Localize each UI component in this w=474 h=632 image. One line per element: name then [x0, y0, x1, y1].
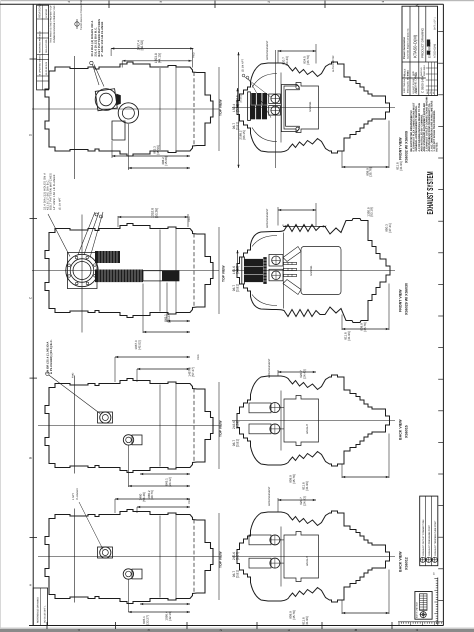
svg-text:[3.81]: [3.81] [236, 122, 240, 130]
svg-text:1: 1 [287, 629, 291, 631]
svg-text:[42.02]: [42.02] [137, 340, 141, 349]
front view 1 exhaust ports [269, 94, 281, 115]
svg-text:[9.67]: [9.67] [236, 552, 240, 560]
svg-text:EXHAUST OUTLET CONNECTION: EXHAUST OUTLET CONNECTION [422, 519, 425, 555]
front view 1 dims top [266, 40, 335, 72]
back view 3 ports with stubs [249, 403, 280, 434]
back view 3 dims top [268, 358, 316, 379]
svg-text:EXHAUST TEMPERATURE PORT: EXHAUST TEMPERATURE PORT [434, 520, 437, 555]
svg-text:TOP VIEW: TOP VIEW [219, 420, 223, 437]
svg-text:TOP VIEW: TOP VIEW [222, 265, 226, 282]
front view 1 port centerline extension [275, 50, 277, 168]
svg-text:FWD: FWD [193, 52, 196, 58]
svg-text:KTA50-D(M): KTA50-D(M) [413, 34, 418, 58]
svg-text:AND [INCHES] FROM CRANKSHAFT C: AND [INCHES] FROM CRANKSHAFT C/L. [428, 102, 431, 151]
svg-text:[53.19]: [53.19] [370, 207, 374, 216]
svg-text:[37.41]: [37.41] [388, 223, 392, 232]
svg-text:A7550-D(M): A7550-D(M) [434, 44, 437, 58]
svg-text:ARRANGEMENT: ARRANGEMENT [266, 208, 269, 228]
zone ticks right border ruler [438, 32, 443, 601]
svg-text:[5.92]: [5.92] [236, 104, 240, 112]
svg-text:[44.15]: [44.15] [157, 53, 161, 63]
svg-text:XS6032 W/ XS6009: XS6032 W/ XS6009 [405, 131, 409, 163]
svg-text:& PLUGGED) [20.6] B.C.: & PLUGGED) [20.6] B.C. [50, 339, 53, 374]
back view 4 dims bottom [289, 570, 389, 626]
svg-text:FRONT VIEW: FRONT VIEW [399, 289, 403, 312]
svg-text:(2) 1/4 NPT: (2) 1/4 NPT [59, 197, 62, 210]
top view 1 leader lines [90, 61, 104, 86]
front view 2 sensor rods [283, 247, 301, 295]
front view 1 port note [242, 59, 272, 118]
back view 4 interior lines [280, 527, 284, 587]
top view 3 leader and note [46, 339, 100, 413]
svg-text:EXHAUST PRESSURE PORT: EXHAUST PRESSURE PORT [428, 524, 431, 555]
svg-text:REFERENCE DRAWING: REFERENCE DRAWING [37, 597, 40, 623]
front view 2 exhaust ports [269, 255, 283, 281]
front view 1 exhaust manifold black sections [248, 92, 268, 121]
svg-text:AND INSTALLED BY CUMMINS.: AND INSTALLED BY CUMMINS. [420, 114, 423, 152]
back view 4 centerline [232, 556, 395, 558]
svg-text:WEIGHT: WEIGHT [306, 424, 309, 434]
top view 4 dims right [219, 513, 240, 600]
svg-text:4: 4 [67, 1, 71, 3]
page bottom edge shadow [0, 629, 474, 632]
svg-text:08-14-97 GPL: 08-14-97 GPL [45, 38, 48, 53]
front view 1 centerline [232, 107, 395, 109]
front view 1 dims bottom [342, 121, 403, 177]
svg-text:[31.96]: [31.96] [347, 331, 351, 340]
front view 1 interior pipes [252, 73, 281, 143]
back view 4 silhouette [237, 511, 390, 602]
revision table strip [37, 3, 49, 89]
svg-text:[3.81]: [3.81] [236, 439, 240, 447]
zone ticks bottom border [47, 622, 419, 631]
top view 1 elbow black segment [117, 94, 121, 105]
top view 2 dims below [134, 283, 190, 350]
svg-text:2: 2 [267, 1, 271, 3]
svg-text:[35.78]: [35.78] [292, 610, 296, 619]
top view 3 body outline [45, 379, 213, 473]
svg-text:11-02-98 RJS: 11-02-98 RJS [45, 61, 48, 75]
top view 3 dims right [219, 382, 240, 469]
svg-text:[35.56]: [35.56] [156, 145, 160, 154]
top view 1 outlet flange 2 [112, 103, 139, 140]
svg-text:[3.81]: [3.81] [236, 284, 240, 292]
svg-text:XS6029 W/ XS6030: XS6029 W/ XS6030 [405, 283, 409, 315]
svg-text:ARE STANDARD EQUIPMENT SUPPLIE: ARE STANDARD EQUIPMENT SUPPLIED [423, 103, 426, 152]
front view 1 silhouette [237, 62, 390, 153]
svg-text:REDRAWN PER ECO: REDRAWN PER ECO [39, 31, 42, 53]
svg-text:0500-3454: 0500-3454 [423, 65, 426, 76]
svg-text:BAR IS ONE INCH: BAR IS ONE INCH [415, 601, 418, 618]
svg-text:2: 2 [219, 629, 223, 631]
svg-text:1. DO NOT SCALE THIS DRAWING.: 1. DO NOT SCALE THIS DRAWING. [433, 110, 436, 152]
svg-text:THIS PRINT IS THE PROPERTY OF: THIS PRINT IS THE PROPERTY OF [50, 5, 53, 43]
front view 2 label [399, 283, 409, 315]
front view 2 dims bottom [342, 284, 389, 341]
svg-text:5. EXHAUST FLEX CONNECTIONS MU: 5. EXHAUST FLEX CONNECTIONS MUST [413, 102, 416, 151]
svg-text:SO-90125 SHT 1: SO-90125 SHT 1 [43, 605, 46, 623]
svg-text:[3.81]: [3.81] [236, 570, 240, 578]
svg-text:[24.12]: [24.12] [168, 477, 172, 486]
svg-text:SO#2341: SO#2341 [309, 101, 312, 112]
svg-text:[15.68]: [15.68] [164, 156, 168, 165]
scale reference box with centermark [415, 592, 432, 620]
page top edge shadow [0, 0, 474, 1]
back view 3 label [399, 419, 409, 440]
svg-text:A1: A1 [414, 72, 418, 76]
svg-text:[24.43]: [24.43] [303, 496, 307, 505]
svg-text:[33.27]: [33.27] [145, 615, 149, 624]
top view 2 centerlines [32, 270, 219, 272]
svg-text:FWD: FWD [188, 216, 191, 222]
back view 4 label [399, 551, 409, 572]
top view 1 body outline [45, 62, 213, 156]
top view 1 dimensions above [111, 40, 239, 108]
top view 1 label [219, 99, 223, 116]
svg-text:FWD: FWD [197, 354, 200, 360]
back view 3 dims bottom [289, 434, 389, 491]
svg-text:DO NOT SCALE: DO NOT SCALE [412, 78, 415, 94]
svg-text:(2) 1/4 NPT: (2) 1/4 NPT [242, 59, 245, 72]
svg-text:[36.79]: [36.79] [306, 55, 310, 64]
top view 1 dims right [219, 67, 240, 151]
front view 2 exhaust manifold block [242, 257, 267, 284]
zone ticks top border [67, 1, 385, 9]
svg-text:CUMMINS ENGINE COMPANY, INC.: CUMMINS ENGINE COMPANY, INC. [53, 5, 56, 43]
back view 3 centerline [232, 420, 395, 422]
svg-text:ALTERNATOR: ALTERNATOR [332, 55, 335, 72]
svg-text:1: 1 [381, 1, 385, 3]
front view 2 silhouette [237, 219, 390, 323]
svg-text:DWG NO: DWG NO [420, 67, 423, 76]
top view 2 dims above [118, 208, 191, 227]
svg-text:[33.27]: [33.27] [167, 313, 171, 322]
general notes [410, 96, 439, 151]
svg-text:[24.43]: [24.43] [285, 56, 289, 65]
svg-text:[53.26]: [53.26] [154, 208, 158, 218]
svg-text:3. EXHAUST OUTLET CONNECTIONS: 3. EXHAUST OUTLET CONNECTIONS SHOWN [425, 96, 428, 151]
back view 4 ports with stubs [249, 535, 280, 568]
front view 1 left dim labels [235, 95, 242, 102]
drafting symbols [75, 0, 83, 30]
svg-text:1 NPT: 1 NPT [72, 493, 75, 500]
front view 2 dims top [266, 203, 392, 233]
top view 3 pressure port boss [98, 412, 113, 423]
top view 4 pressure port boss [98, 547, 113, 558]
front view 2 interior pipes [252, 233, 283, 309]
svg-text:FWD: FWD [188, 498, 191, 504]
top view 3 temperature port [123, 435, 142, 445]
corner ruler vertical [433, 572, 438, 626]
svg-text:B: B [29, 457, 33, 459]
top view 3 centerlines [38, 425, 219, 427]
svg-text:FRONT VIEW: FRONT VIEW [399, 137, 403, 160]
zone ticks left border [29, 59, 38, 586]
svg-text:[6.56]: [6.56] [238, 95, 242, 102]
svg-text:3: 3 [147, 629, 151, 631]
svg-text:WEIGHT: WEIGHT [306, 556, 309, 566]
front view 1 flex clamp bracket [281, 85, 299, 132]
top view 4 centerlines [38, 556, 219, 558]
back view 3 interior lines [280, 391, 284, 451]
svg-text:PRODUCT DRAWING: PRODUCT DRAWING [420, 27, 424, 58]
svg-text:C 0500-3454: C 0500-3454 [420, 75, 424, 93]
svg-text:[56.59]: [56.59] [140, 40, 144, 50]
svg-text:BACK VIEW: BACK VIEW [399, 551, 403, 572]
svg-text:[35.78]: [35.78] [369, 167, 373, 176]
svg-text:BE SUPPORTED INDEPENDENTLY.: BE SUPPORTED INDEPENDENTLY. [410, 109, 413, 151]
back view 4 dims top [268, 486, 316, 511]
top view 2 flex pipe lower [95, 270, 179, 283]
svg-text:A: A [414, 4, 419, 7]
svg-text:XS6012: XS6012 [405, 557, 409, 570]
corner ruler horizontal [398, 622, 443, 625]
revision strip side notes [50, 5, 57, 43]
svg-text:[35.78]: [35.78] [292, 474, 296, 483]
svg-text:SO#2341: SO#2341 [310, 265, 313, 276]
svg-text:[6.36]: [6.36] [236, 266, 240, 274]
svg-text:XS6015: XS6015 [405, 425, 409, 438]
top view 1 exhaust elbow flange [95, 89, 117, 111]
top view 3 dims above [115, 354, 200, 382]
top view 1 centerlines [32, 108, 219, 110]
svg-text:GENERAL ARRANGEMENT DRAWING.: GENERAL ARRANGEMENT DRAWING. [415, 105, 418, 151]
svg-text:PRINT: PRINT [415, 87, 418, 94]
svg-text:[86.15]: [86.15] [242, 130, 246, 139]
svg-text:Cummins Engine Company, Inc.: Cummins Engine Company, Inc. [406, 27, 409, 59]
top view 2 body outline [45, 224, 213, 318]
svg-text:SHT 1 OF 1: SHT 1 OF 1 [434, 17, 437, 30]
svg-text:[24.43]: [24.43] [303, 369, 307, 378]
svg-text:[31.96]: [31.96] [305, 481, 309, 490]
svg-text:[31.96]: [31.96] [305, 616, 309, 625]
svg-text:THIRD ANGLE PROJECTION: THIRD ANGLE PROJECTION [80, 0, 83, 30]
svg-text:BACK VIEW: BACK VIEW [399, 419, 403, 440]
exhaust port legend table [420, 496, 438, 566]
svg-text:[42.16]: [42.16] [168, 611, 172, 620]
svg-text:2. ALL DIMENSIONS ARE IN MILLI: 2. ALL DIMENSIONS ARE IN MILLIMETERS [431, 100, 434, 151]
page left edge shadow [0, 0, 1, 632]
svg-text:4: 4 [77, 629, 81, 631]
svg-text:4. FOR ENGINE DETAILS REFER TO: 4. FOR ENGINE DETAILS REFER TO THE [418, 103, 421, 152]
top view 2 dims right [219, 227, 240, 314]
svg-text:SCALE: SCALE [404, 68, 407, 76]
svg-text:A 34162: A 34162 [45, 8, 48, 17]
svg-text:14" ANSI 150 LB FLANGE: 14" ANSI 150 LB FLANGE [53, 174, 56, 210]
top view 4 dims below [128, 580, 190, 625]
svg-text:FWD: FWD [72, 372, 75, 378]
top view 4 temperature port [123, 569, 142, 579]
top view 4 note [72, 488, 103, 550]
front view 2 upper dim [283, 225, 326, 228]
top view 4 body outline [45, 510, 213, 604]
svg-text:B UPDATED VIEWS: B UPDATED VIEWS [39, 55, 42, 76]
top view 2 turbo outlet flange [66, 253, 98, 289]
top view 1 dims below [112, 124, 190, 170]
svg-text:REVISIONS: REVISIONS [39, 3, 42, 17]
svg-text:ARRANGEMENT: ARRANGEMENT [266, 40, 269, 60]
front view 2 centerline [232, 270, 395, 272]
title block [402, 6, 438, 95]
svg-text:PLUGGED: PLUGGED [76, 488, 79, 500]
svg-text:[54.48]: [54.48] [142, 492, 146, 501]
svg-text:TOP VIEW: TOP VIEW [219, 551, 223, 568]
top view 2 flex pipe upper [95, 251, 120, 263]
svg-text:[40.76]: [40.76] [150, 490, 154, 499]
svg-text:B: B [354, 629, 358, 631]
svg-text:TOP VIEW: TOP VIEW [219, 99, 223, 116]
svg-text:[57.37]: [57.37] [191, 367, 195, 376]
svg-text:ARRANGEMENT: ARRANGEMENT [268, 358, 271, 378]
front view 1 label [399, 131, 409, 163]
top view 4 dims above [115, 492, 191, 513]
svg-text:NOTES:: NOTES: [436, 142, 439, 152]
svg-text:[31.96]: [31.96] [399, 161, 403, 170]
svg-text:3: 3 [159, 1, 163, 3]
front view 1 overall dim [237, 52, 246, 168]
svg-text:8" ANSI 150 LB FLANGE: 8" ANSI 150 LB FLANGE [101, 22, 104, 57]
reference block [33, 588, 47, 626]
top view 3 dims below [129, 446, 191, 500]
svg-text:EXHAUST SYSTEM: EXHAUST SYSTEM [425, 172, 435, 215]
back view 3 silhouette [237, 375, 390, 466]
top view 1 note text [91, 19, 104, 57]
svg-text:[35.78]: [35.78] [363, 322, 367, 331]
svg-text:ARRANGEMENT: ARRANGEMENT [268, 486, 271, 506]
top view 2 leaders and note [44, 173, 104, 258]
svg-text:Power Generation: Power Generation [403, 36, 406, 59]
